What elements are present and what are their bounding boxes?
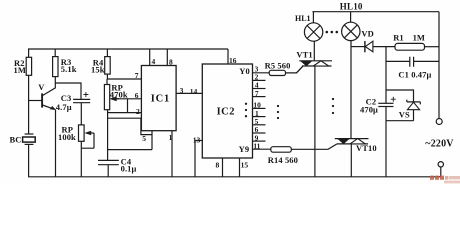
wire VT1 to ground bbox=[314, 66, 316, 177]
wire pin16 of IC2 bbox=[227, 49, 229, 64]
wire emitter down to ground bbox=[55, 110, 57, 177]
wire VT10 to ground bbox=[350, 144, 352, 177]
wire bottom ground rail bbox=[28, 176, 441, 178]
dots inside IC2 bbox=[245, 103, 247, 118]
wire pin5 of IC1 bbox=[108, 131, 152, 150]
label R2 1M bbox=[14, 58, 26, 75]
wire C3 to RP100k bbox=[80, 103, 82, 125]
capacitor C1 0.47u bbox=[386, 57, 439, 80]
wire BC to ground bbox=[28, 144, 30, 176]
terminal lower bbox=[438, 162, 443, 177]
triac VT1 bbox=[296, 50, 332, 73]
capacitor C3 4.7u bbox=[56, 92, 90, 112]
output pin stubs of IC2 with numbers bbox=[253, 65, 266, 151]
wire pin3 of IC1 to pin14 of IC2 bbox=[176, 92, 202, 94]
terminal upper bbox=[436, 119, 442, 125]
capacitor C4 0.1u bbox=[98, 156, 137, 177]
lamp HL10 bbox=[340, 2, 363, 41]
wire pin7 of IC1 bbox=[107, 78, 141, 80]
triac VT10 bbox=[335, 139, 377, 153]
wire pin15 of IC2 to ground bbox=[239, 158, 241, 177]
wire right vertical to terminal bbox=[438, 12, 440, 119]
wire pin8 of IC1 bbox=[166, 49, 168, 66]
dots column between R rows bbox=[277, 105, 279, 119]
wire base of V bbox=[29, 100, 42, 102]
wire HL10 down to VT10 bbox=[350, 41, 352, 139]
resistor R5 560 bbox=[253, 61, 304, 76]
resistor R1 bbox=[393, 33, 439, 51]
resistor R14 560 bbox=[253, 144, 338, 165]
wire VD to R1 bbox=[373, 46, 395, 48]
wire VD feed from HL10 line bbox=[351, 46, 365, 48]
wire aux below pin2 bbox=[108, 118, 152, 134]
wire HL1 to VT1 bbox=[313, 41, 315, 61]
zener VS loop bbox=[386, 90, 420, 121]
resistor R3 bbox=[53, 49, 77, 77]
IC1 (555) bbox=[141, 66, 176, 131]
wire top supply rail bbox=[28, 48, 228, 50]
watermark bbox=[430, 176, 460, 184]
resistor R2 bbox=[26, 57, 31, 75]
transducer BC bbox=[10, 134, 36, 145]
label ~220V bbox=[425, 138, 454, 149]
wire C2 branch from VD node bbox=[385, 47, 387, 104]
wire lamp top feed bbox=[312, 11, 439, 13]
wire C2 to ground bbox=[385, 107, 387, 177]
wire RP470k bottom to C4 bbox=[107, 110, 109, 161]
dots between lamps bbox=[326, 31, 339, 34]
wire RP100k to ground bbox=[80, 148, 82, 177]
wire R2 bottom to BC bbox=[28, 75, 30, 134]
dots column between triacs bbox=[332, 98, 334, 114]
wire pin6 of IC1 bbox=[117, 98, 141, 100]
wire pin2 of IC1 bbox=[108, 112, 142, 114]
resistor R4 bbox=[91, 49, 110, 79]
transistor V bbox=[38, 77, 56, 110]
wire pin6 to pin2 link bbox=[127, 99, 129, 113]
wire left branch R2 top stub bbox=[28, 49, 30, 57]
lamp HL1 bbox=[295, 12, 323, 41]
wire pin1 of IC1 to ground bbox=[171, 131, 173, 177]
potentiometer RP 100k bbox=[58, 124, 94, 148]
diode VD bbox=[361, 29, 373, 53]
wire collector node to C3 bbox=[55, 83, 81, 99]
wire pin8 of IC2 to ground bbox=[222, 158, 224, 177]
potentiometer RP 470k bbox=[104, 79, 127, 110]
wire pin13 of IC2 to ground bbox=[195, 141, 202, 177]
wire pin4 of IC1 bbox=[149, 49, 151, 66]
IC2 (CD4017) bbox=[202, 64, 252, 158]
capacitor C2 470u bbox=[360, 96, 396, 114]
